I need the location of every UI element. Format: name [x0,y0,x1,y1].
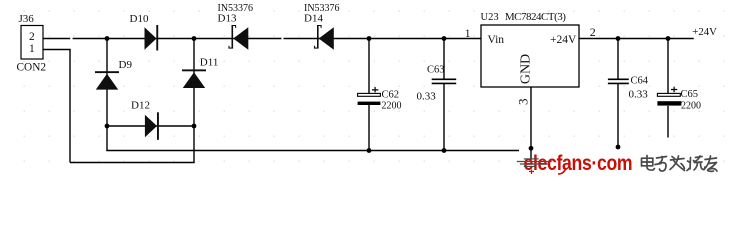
svg-text:U23: U23 [481,12,499,23]
svg-text:Vin: Vin [488,34,505,46]
svg-text:+24V: +24V [692,26,717,38]
connector J36 body [21,26,43,60]
wire connector pin1 vertical [69,50,71,163]
wire bridge left leg [106,39,108,151]
regulator U23 body [481,25,579,87]
capacitor C63 [417,39,457,151]
diode D11 [182,56,218,88]
wire top rail right of U23 pin2 to +24V [579,38,694,40]
svg-text:0.33: 0.33 [417,91,437,103]
svg-text:3: 3 [516,99,531,106]
wire pin1 bottom horizontal to bridge right leg [70,162,195,164]
schottky diode D14 [304,3,340,50]
svg-text:GND: GND [519,54,534,84]
svg-text:+24V: +24V [550,34,577,46]
svg-text:1: 1 [465,28,471,40]
node junction dot C63 top [442,36,447,41]
schottky diode D13 [218,3,254,50]
wire bridge bottom D12 row [107,125,194,127]
watermark elecfans.com [524,151,633,175]
node junction dot C62 top [367,36,372,41]
svg-text:2: 2 [590,25,596,39]
capacitor C62 [358,39,402,151]
watermark chinese 电子发烧友 [642,156,718,172]
wire bridge right leg [193,39,195,163]
wire top rail from connector pin 2 to U23 pin1 [43,38,70,40]
wire ground rail [106,150,519,152]
ground symbol [517,159,552,167]
svg-text:C63: C63 [427,64,445,75]
node junction dot bridge top-left [105,36,110,41]
svg-text:elecfans·com: elecfans·com [524,151,633,175]
diode D9 [95,59,132,89]
capacitor C64 [608,39,649,148]
watermark red mark below ground [529,170,534,175]
svg-text:C65: C65 [681,89,699,100]
svg-text:1: 1 [29,43,35,55]
node junction dot bridge top-right [192,36,197,41]
node junction dot bridge bottom-left [105,124,110,129]
svg-text:2: 2 [29,31,35,43]
capacitor C65 [657,39,701,138]
svg-text:0.33: 0.33 [629,89,649,101]
node junction dot C64 bottom [616,145,621,150]
svg-text:C64: C64 [631,75,649,86]
svg-text:CON2: CON2 [17,62,47,74]
svg-text:D12: D12 [131,100,150,112]
svg-text:D9: D9 [119,59,133,71]
diode D10 [130,13,159,51]
diode D12 [131,100,159,140]
svg-text:J36: J36 [19,13,35,25]
wire U23 pin 3 down [530,87,532,160]
node junction dot C65 top [666,36,671,41]
wire connector pin1 horizontal [43,49,71,51]
node junction dot C62 bottom [367,148,372,153]
node junction dot pin3 ground [529,146,534,151]
svg-text:D14: D14 [304,12,323,24]
svg-text:D11: D11 [200,56,219,68]
node junction dot bridge bottom-right [192,124,197,129]
svg-text:MC7824CT(3): MC7824CT(3) [505,11,566,23]
watermark red swoosh under fans [558,168,566,174]
svg-text:2200: 2200 [681,100,701,111]
svg-text:D10: D10 [130,13,149,25]
node junction dot C63 bottom [442,148,447,153]
svg-text:D13: D13 [218,12,237,24]
svg-text:C62: C62 [382,90,400,101]
svg-text:2200: 2200 [382,101,402,112]
node junction dot C64 top [616,36,621,41]
